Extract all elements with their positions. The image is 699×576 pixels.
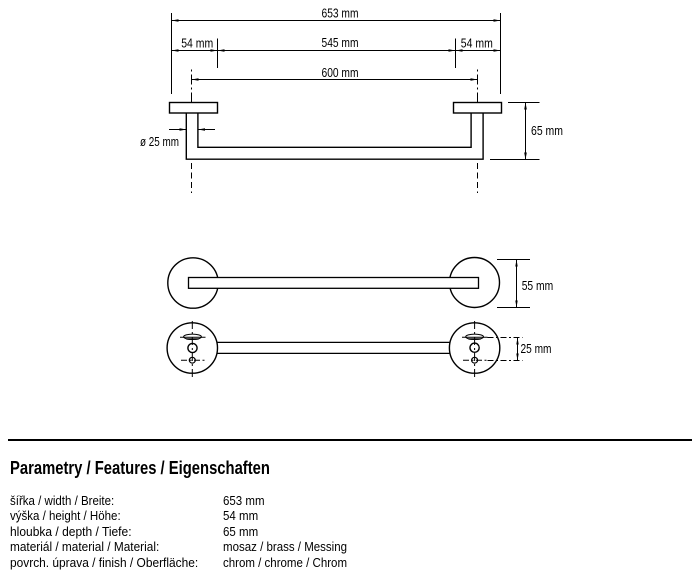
centerline right post lower <box>477 163 479 193</box>
row hloubka <box>10 524 132 539</box>
label diameter 25 mm <box>140 135 179 149</box>
dimension 55 mm top tick <box>497 259 530 261</box>
centerline left post upper <box>191 70 193 103</box>
svg-text:545 mm: 545 mm <box>322 36 359 50</box>
dimension line 65 mm <box>524 103 563 160</box>
row sirka <box>10 493 114 508</box>
centerline right post upper <box>477 70 479 103</box>
towel bar (mounting view) <box>217 342 450 353</box>
left keyhole slot <box>180 334 206 339</box>
left screw <box>181 357 205 363</box>
dimension 653 mm extension line right <box>500 13 502 94</box>
left plate vertical centerline <box>191 321 193 379</box>
dimension line 600 mm <box>192 66 478 81</box>
right wall plate circle (front view) <box>450 258 500 308</box>
dimension line 54 mm left <box>172 37 218 52</box>
dimension line 55 mm <box>515 260 553 308</box>
right plate vertical centerline <box>474 321 476 379</box>
dimension 65 mm bottom tick <box>490 159 540 161</box>
dimension 653 mm extension line left <box>171 13 173 94</box>
row material <box>10 539 159 554</box>
dimension 65 mm top tick <box>508 102 540 104</box>
svg-text:ø 25 mm: ø 25 mm <box>140 135 179 149</box>
left wall plate circle (front view) <box>168 258 218 308</box>
towel bar tube outline (top view) <box>186 113 483 159</box>
dimension 25 mm top extension (dash-dot) <box>488 337 523 339</box>
dimension 25 mm bottom extension (dash-dot) <box>488 360 523 362</box>
dimension 55 mm bottom tick <box>497 307 530 309</box>
right screw hole <box>470 343 479 352</box>
svg-text:55 mm: 55 mm <box>522 279 554 293</box>
svg-text:600 mm: 600 mm <box>322 66 359 80</box>
row vyska <box>10 508 121 523</box>
dimension line 25 mm <box>516 338 551 361</box>
dimension line 653 mm <box>172 7 501 22</box>
table heading <box>10 457 270 479</box>
right wall plate circle (mounting view) <box>449 323 499 373</box>
extension line flange left edge (545/54 boundary right) <box>455 39 457 69</box>
diameter 25 mm leader arrows <box>169 128 215 130</box>
right screw <box>463 357 488 363</box>
dimension line 545 mm <box>218 36 456 52</box>
row povrch <box>10 555 198 570</box>
left wall plate circle (mounting view) <box>167 323 217 373</box>
table separator rule <box>8 439 692 441</box>
svg-text:653 mm: 653 mm <box>322 7 359 21</box>
dimension line 54 mm right <box>456 37 501 52</box>
svg-text:54 mm: 54 mm <box>181 37 213 51</box>
extension line flange right edge (54/545 boundary left) <box>217 39 219 69</box>
svg-text:25 mm: 25 mm <box>521 342 552 356</box>
right wall flange (top view) <box>454 103 502 114</box>
svg-text:54 mm: 54 mm <box>461 37 493 51</box>
centerline left post lower <box>191 163 193 193</box>
towel bar (front view) <box>189 278 479 289</box>
right keyhole slot <box>462 334 488 339</box>
left wall flange (top view) <box>170 103 218 114</box>
left screw hole <box>188 343 197 352</box>
svg-text:65 mm: 65 mm <box>531 124 563 138</box>
